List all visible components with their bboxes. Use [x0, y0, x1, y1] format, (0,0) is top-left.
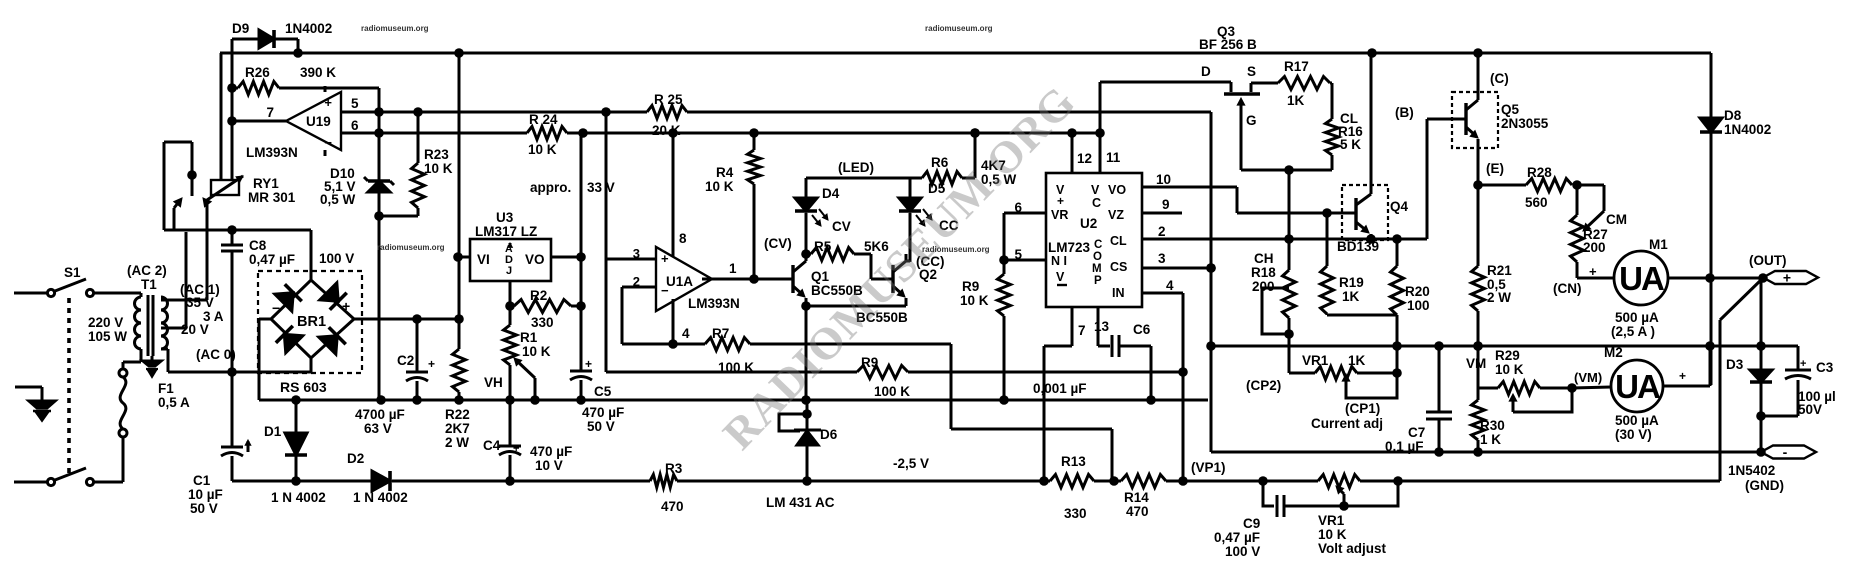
label F1: [158, 381, 190, 410]
ground mains earth: [15, 387, 55, 420]
resistor R30: [1472, 388, 1485, 452]
svg-text:R 24: R 24: [529, 112, 558, 127]
svg-text:R7: R7: [712, 326, 729, 341]
label pin5 pin6: [351, 96, 359, 133]
label R17 1K: [1284, 59, 1309, 108]
label R28 560: [1525, 165, 1552, 210]
wire LED rail: [806, 128, 980, 178]
label R2 330: [530, 288, 554, 330]
svg-text:6: 6: [351, 118, 359, 133]
switch S1 pole 1: [47, 279, 93, 297]
wire M2 left: [1572, 387, 1611, 388]
label OUT: [1749, 253, 1787, 268]
svg-text:S: S: [1247, 64, 1256, 79]
diode D8: [1700, 53, 1722, 385]
svg-text:8: 8: [679, 231, 687, 246]
wire M1 left: [1577, 264, 1614, 279]
svg-text:(CP2): (CP2): [1246, 378, 1281, 393]
svg-text:D2: D2: [347, 451, 364, 466]
svg-text:35 V: 35 V: [186, 295, 214, 310]
label R22 2K7 2W: [445, 407, 470, 450]
svg-text:U3: U3: [496, 210, 514, 225]
svg-text:CS: CS: [1110, 260, 1127, 274]
svg-text:330: 330: [531, 315, 554, 330]
diode BR1 top-left: [275, 284, 302, 311]
svg-text:LM393N: LM393N: [246, 145, 298, 160]
label VH: [484, 375, 503, 390]
svg-text:12: 12: [1077, 151, 1092, 166]
svg-text:10 K: 10 K: [1495, 362, 1524, 377]
svg-text:4: 4: [682, 326, 690, 341]
svg-text:D6: D6: [820, 427, 838, 442]
svg-text:500 µA: 500 µA: [1615, 310, 1659, 325]
ground transformer center tap: [143, 356, 161, 376]
jfet Q3: [1224, 83, 1260, 170]
svg-text:P: P: [1094, 275, 1102, 287]
wire relay common bracket: [164, 142, 192, 230]
wire Q3 drain: [1100, 64, 1231, 92]
transistor Q5: [1452, 53, 1478, 185]
svg-text:R6: R6: [931, 155, 949, 170]
resistor R3: [650, 475, 677, 488]
label C7: [1385, 425, 1425, 454]
label R19 1K: [1339, 275, 1364, 304]
svg-text:0,001 µF: 0,001 µF: [1033, 381, 1087, 396]
led D5: [899, 178, 932, 262]
svg-text:100 K: 100 K: [874, 384, 910, 399]
wire S1 to transformer primary: [94, 292, 141, 295]
svg-text:3: 3: [1158, 251, 1166, 266]
label C5 470uF 50V: [582, 384, 624, 434]
label -2.5V: [893, 456, 929, 471]
resistor R24: [527, 127, 567, 140]
svg-text:2 W: 2 W: [1487, 290, 1511, 305]
svg-text:(2,5 A ): (2,5 A ): [1611, 324, 1655, 339]
label R1 10K: [520, 330, 551, 359]
svg-text:MR 301: MR 301: [248, 190, 296, 205]
wire 33V node vertical: [580, 133, 583, 370]
label Q2: [856, 254, 945, 325]
svg-text:+: +: [342, 298, 350, 314]
svg-text:1K: 1K: [1348, 353, 1366, 368]
diode D1: [285, 400, 307, 481]
wire U2 pin3 CS: [1142, 251, 1216, 273]
svg-text:VZ: VZ: [1108, 208, 1124, 222]
svg-text:(VM): (VM): [1574, 370, 1602, 385]
wire U2 pin9 VZ: [1142, 197, 1182, 213]
diode D3: [1750, 278, 1772, 452]
svg-text:(GND): (GND): [1745, 478, 1784, 493]
svg-text:10 K: 10 K: [960, 293, 989, 308]
svg-text:+: +: [428, 357, 435, 371]
resistor R2: [510, 300, 586, 313]
svg-text:R22: R22: [445, 407, 470, 422]
svg-text:63 V: 63 V: [364, 421, 392, 436]
label R30 1K: [1480, 418, 1505, 447]
svg-text:0,47 µF: 0,47 µF: [1214, 530, 1260, 545]
svg-text:CM: CM: [1606, 212, 1627, 227]
wire 35V tap: [161, 207, 207, 300]
svg-text:10 K: 10 K: [705, 179, 734, 194]
watermark small 1: [361, 24, 429, 33]
svg-text:VI: VI: [477, 252, 490, 267]
svg-text:9: 9: [1162, 197, 1170, 212]
label Q4 BD139: [1337, 105, 1414, 254]
label VR1 1K cp: [1246, 353, 1383, 431]
resistor R28: [1478, 179, 1582, 192]
svg-text:100: 100: [1407, 298, 1430, 313]
transistor Q5 box: [1452, 92, 1498, 148]
label R29 10K: [1495, 348, 1524, 377]
capacitor C7: [1426, 346, 1452, 452]
label R27 200: [1583, 227, 1608, 255]
svg-text:CV: CV: [832, 219, 851, 234]
svg-text:10 µF: 10 µF: [188, 487, 223, 502]
svg-text:VR: VR: [1051, 208, 1068, 222]
svg-text:BF 256 B: BF 256 B: [1199, 37, 1257, 52]
svg-text:RY1: RY1: [253, 176, 279, 191]
svg-text:D4: D4: [822, 186, 840, 201]
wire AC select rail: [164, 225, 311, 235]
svg-text:R18: R18: [1251, 265, 1276, 280]
watermark small 4: [922, 245, 990, 254]
svg-text:1 N 4002: 1 N 4002: [353, 490, 408, 505]
wire U2 pin11: [1095, 82, 1121, 173]
wire bus to RY1 coil: [220, 53, 223, 180]
label Q5 2N3055: [1486, 71, 1549, 176]
svg-text:RS 603: RS 603: [280, 379, 327, 395]
resistor R7: [705, 338, 750, 351]
svg-text:50V: 50V: [1798, 402, 1822, 417]
svg-text:C9: C9: [1243, 516, 1260, 531]
svg-text:1N4002: 1N4002: [285, 21, 332, 36]
label R9 10K v: [960, 279, 989, 308]
svg-text:R21: R21: [1487, 263, 1512, 278]
rectifier BR1 diamond: [271, 280, 354, 358]
wire pin3 drop: [606, 112, 656, 261]
wire U2 pin6 VR: [1004, 200, 1046, 215]
wire comparator line 6: [341, 128, 527, 138]
svg-text:R3: R3: [665, 461, 683, 476]
label CM: [1606, 212, 1627, 227]
svg-text:10 K: 10 K: [424, 161, 453, 176]
label D5 CC: [928, 181, 959, 233]
rectifier BR1 box dashed: [258, 271, 362, 373]
svg-text:R14: R14: [1124, 490, 1149, 505]
svg-text:UA: UA: [1615, 368, 1660, 405]
svg-text:Q4: Q4: [1390, 199, 1409, 214]
svg-text:7: 7: [1078, 323, 1086, 338]
wire VO to node: [551, 252, 586, 262]
capacitor C2: [406, 319, 435, 400]
watermark small 3: [377, 243, 445, 252]
fuse F1: [119, 369, 127, 482]
wire U2 pin13 COMP: [1094, 307, 1110, 346]
capacitor C3: [1761, 346, 1811, 416]
svg-text:+: +: [1800, 358, 1806, 370]
svg-text:CL: CL: [1110, 234, 1127, 248]
svg-text:7: 7: [266, 105, 274, 120]
label R20 100: [1405, 284, 1430, 313]
label VP1: [1191, 460, 1226, 475]
svg-text:10 K: 10 K: [1318, 527, 1347, 542]
svg-text:radiomuseum.org: radiomuseum.org: [922, 245, 990, 254]
svg-text:390 K: 390 K: [300, 65, 336, 80]
svg-text:-2,5 V: -2,5 V: [893, 456, 929, 471]
svg-text:(LED): (LED): [838, 160, 874, 175]
resistor R27: [1571, 185, 1584, 278]
connector OUT plus: [1763, 270, 1818, 286]
label LM393N U1A: [688, 296, 740, 311]
svg-text:R17: R17: [1284, 59, 1309, 74]
led D4: [795, 178, 828, 259]
svg-text:IN: IN: [1112, 286, 1125, 300]
svg-text:G: G: [1246, 113, 1257, 128]
svg-text:100 V: 100 V: [319, 251, 354, 266]
wire M2 right: [1663, 346, 1710, 386]
svg-text:radiomuseum.org: radiomuseum.org: [925, 24, 993, 33]
svg-text:(VP1): (VP1): [1191, 460, 1226, 475]
resistor R9 100K: [857, 366, 908, 379]
label LED: [838, 160, 874, 175]
svg-text:radiomuseum.org: radiomuseum.org: [361, 24, 429, 33]
svg-text:1K: 1K: [1342, 289, 1360, 304]
svg-text:C: C: [1094, 239, 1102, 251]
diode BR1 bottom-right: [319, 327, 346, 354]
svg-text:R19: R19: [1339, 275, 1364, 290]
svg-text:50 V: 50 V: [190, 501, 218, 516]
svg-text:4700 µF: 4700 µF: [355, 407, 405, 422]
resistor R1 pot: [504, 306, 517, 400]
pot R29: [1478, 382, 1577, 413]
wire AC0 run: [168, 367, 311, 377]
svg-text:10 V: 10 V: [535, 458, 563, 473]
svg-text:2: 2: [1158, 224, 1166, 239]
svg-text:N I: N I: [1051, 254, 1067, 268]
svg-text:appro.: appro.: [530, 180, 571, 195]
relay coil RY1: [207, 176, 243, 200]
wire output rail: [1211, 341, 1798, 351]
transformer T1 secondary: [161, 297, 168, 349]
wire BR1 plus rail: [354, 314, 464, 324]
label D9 1N4002: [232, 21, 332, 36]
resistor R20: [1391, 239, 1404, 315]
capacitor C9 loop: [1263, 481, 1398, 517]
svg-text:LM317 LZ: LM317 LZ: [475, 224, 537, 239]
svg-text:C1: C1: [193, 473, 211, 488]
svg-text:33 V: 33 V: [587, 180, 615, 195]
wire minus rail: [1211, 447, 1766, 457]
svg-text:R30: R30: [1480, 418, 1505, 433]
resistor R9 10K: [998, 213, 1011, 400]
label VR1 volt: [1318, 513, 1387, 556]
svg-text:C: C: [1092, 196, 1101, 210]
svg-text:3: 3: [633, 246, 640, 261]
svg-text:11: 11: [1106, 150, 1121, 165]
S1 gang link dashed: [67, 298, 71, 476]
wire zener node down: [378, 216, 381, 400]
resistor R23: [379, 112, 425, 216]
wire BR1 top corner up: [310, 230, 313, 280]
svg-text:1N4002: 1N4002: [1724, 122, 1771, 137]
wire BR1 bottom stub: [310, 358, 313, 372]
svg-text:C7: C7: [1408, 425, 1425, 440]
label R25 20K: [652, 92, 683, 138]
meter M1: [1614, 251, 1668, 305]
wire feedback R7 line: [622, 344, 1112, 481]
label 1N5402 GND: [1728, 463, 1784, 493]
label D8 1N4002: [1724, 108, 1771, 137]
wire D9 node to RY1 coil: [227, 39, 237, 180]
resistor R25: [647, 106, 687, 119]
label U3 LM317LZ: [475, 210, 537, 239]
label T1 AC2: [127, 263, 167, 292]
svg-text:M1: M1: [1649, 237, 1668, 252]
svg-text:1N5402: 1N5402: [1728, 463, 1775, 478]
svg-text:-: -: [1783, 444, 1788, 460]
svg-text:1: 1: [729, 261, 737, 276]
svg-text:LM393N: LM393N: [688, 296, 740, 311]
relay contact RY1 throws: [174, 142, 211, 230]
svg-text:2K7: 2K7: [445, 421, 470, 436]
wire U2 pin5 NI: [1004, 247, 1046, 262]
wire U2 pin2 CL: [1142, 224, 1402, 244]
svg-text:(AC 0): (AC 0): [196, 347, 236, 362]
svg-text:Current adj: Current adj: [1311, 416, 1383, 431]
shunt regulator D6: [779, 400, 821, 481]
wire pin8: [673, 133, 687, 257]
svg-text:R20: R20: [1405, 284, 1430, 299]
svg-text:1 K: 1 K: [1480, 432, 1501, 447]
wire VI tap: [453, 252, 470, 262]
svg-text:M: M: [1092, 263, 1102, 275]
resistor R17: [1278, 77, 1332, 120]
svg-text:R5: R5: [814, 239, 832, 254]
transformer T1 core: [148, 295, 153, 356]
label 20V AC0: [181, 322, 236, 362]
svg-text:Q5: Q5: [1501, 102, 1520, 117]
label R7 100K: [712, 326, 754, 375]
svg-text:R23: R23: [424, 147, 449, 162]
diode D2: [372, 471, 390, 491]
svg-text:D3: D3: [1726, 357, 1744, 372]
svg-text:C2: C2: [397, 353, 414, 368]
label CH R18 200: [1251, 251, 1276, 294]
svg-text:VH: VH: [484, 375, 503, 390]
wire bus drop to R22/VI: [458, 53, 461, 320]
svg-text:(C): (C): [1490, 71, 1509, 86]
svg-text:(B): (B): [1395, 105, 1414, 120]
svg-text:D: D: [1201, 64, 1211, 79]
svg-text:1K: 1K: [1287, 93, 1305, 108]
ic U2 LM723 box: [1046, 173, 1142, 307]
label R21: [1487, 263, 1512, 305]
resistor R14: [1121, 475, 1166, 488]
svg-text:470 µF: 470 µF: [582, 405, 624, 420]
label R24 10K: [528, 112, 558, 157]
label M1: [1611, 237, 1668, 339]
label R23 10K: [424, 147, 453, 176]
connector GND minus: [1761, 444, 1816, 460]
resistor R22: [453, 319, 466, 400]
diode BR1 bottom-left: [276, 326, 303, 353]
svg-text:0,5 W: 0,5 W: [320, 192, 356, 207]
capacitor C5: [570, 357, 592, 400]
pot CM R27: [1577, 185, 1604, 231]
label Q1 BC550B: [764, 236, 863, 298]
label R13 330: [1061, 454, 1087, 521]
svg-text:0,1 µF: 0,1 µF: [1385, 439, 1424, 454]
svg-text:500 µA: 500 µA: [1615, 413, 1659, 428]
wire bottom output rail: [232, 476, 1720, 486]
svg-text:R9: R9: [962, 279, 979, 294]
svg-text:2: 2: [633, 274, 640, 289]
capacitor C1: [221, 372, 251, 481]
label C4 470uF 10V: [483, 438, 572, 473]
resistor R21: [1472, 180, 1485, 351]
svg-text:M2: M2: [1604, 345, 1623, 360]
svg-text:560: 560: [1525, 195, 1548, 210]
label D4 CV: [822, 186, 851, 234]
pot R1 wiper: [514, 358, 535, 400]
svg-text:radiomuseum.org: radiomuseum.org: [377, 243, 445, 252]
svg-text:R 25: R 25: [654, 92, 683, 107]
transistor Q4: [1356, 53, 1371, 239]
resistor R5: [806, 248, 893, 280]
svg-text:+: +: [1783, 270, 1791, 286]
svg-text:1 N 4002: 1 N 4002: [271, 490, 326, 505]
svg-text:(OUT): (OUT): [1749, 253, 1787, 268]
svg-text:R28: R28: [1527, 165, 1552, 180]
label LM393N U19: [246, 145, 298, 160]
svg-text:0,5 A: 0,5 A: [158, 395, 190, 410]
wire S1 bottom pole feed: [14, 481, 47, 484]
label appro 33V: [530, 180, 615, 195]
svg-text:+: +: [324, 95, 332, 110]
label Q3: [1199, 24, 1257, 52]
svg-text:V: V: [1091, 183, 1100, 197]
svg-text:2 W: 2 W: [445, 435, 469, 450]
label C6: [1033, 322, 1151, 396]
wire ground rail: [259, 395, 1208, 405]
wire 20V tap: [161, 232, 186, 328]
svg-text:V: V: [1056, 270, 1065, 284]
svg-text:VM: VM: [1466, 356, 1486, 371]
label C1 10uF 50V: [188, 473, 223, 516]
op-amp U19: [286, 86, 341, 156]
label D3: [1726, 357, 1744, 372]
svg-text:C6: C6: [1133, 322, 1151, 337]
svg-text:U19: U19: [306, 114, 331, 129]
wire ADJ down: [505, 281, 515, 311]
capacitor C4: [499, 400, 521, 481]
diode BR1 top-right: [320, 283, 347, 310]
svg-text:R29: R29: [1495, 348, 1520, 363]
wire BR1 left corner out: [259, 319, 271, 400]
svg-text:10 K: 10 K: [522, 344, 551, 359]
svg-text:10 K: 10 K: [528, 142, 557, 157]
zener D10: [364, 88, 394, 221]
svg-text:5: 5: [351, 96, 359, 111]
svg-text:10: 10: [1156, 172, 1171, 187]
wire comparator line 5 right: [687, 111, 1211, 114]
svg-text:+: +: [1057, 194, 1064, 208]
label RS603: [280, 379, 327, 395]
label D10: [320, 166, 356, 207]
svg-text:UA: UA: [1619, 260, 1664, 297]
svg-text:U1A: U1A: [666, 274, 693, 289]
wire sense rail: [606, 367, 1188, 377]
